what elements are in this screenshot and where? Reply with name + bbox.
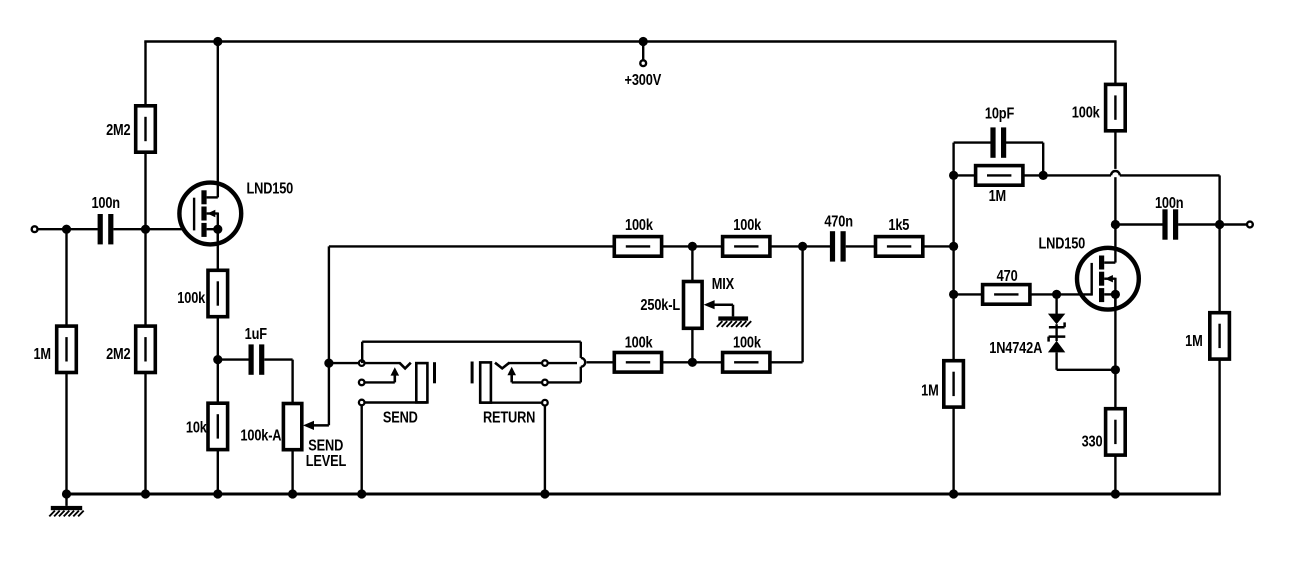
- wire zener top lead: [1055, 294, 1057, 314]
- svg-text:10pF: 10pF: [985, 105, 1014, 123]
- wire mix node to R7: [692, 245, 722, 247]
- resistor R3 2M2 lower bias: [136, 326, 156, 372]
- svg-text:100k: 100k: [625, 217, 654, 235]
- node return sleeve ground junction: [540, 489, 549, 498]
- svg-text:100k: 100k: [1072, 104, 1101, 122]
- resistor R4 100k: [208, 270, 228, 316]
- label R5 10k: [186, 419, 208, 437]
- label R7 100k: [733, 217, 762, 235]
- jack J2 RETURN contact bar: [471, 362, 474, 384]
- wire R11 bottom lead: [952, 407, 954, 494]
- svg-text:+300V: +300V: [625, 72, 662, 90]
- capacitor C3 470n: [830, 231, 846, 261]
- svg-text:10k: 10k: [186, 419, 208, 437]
- transistor Q2 LND150 gain stage: [1077, 248, 1139, 310]
- svg-text:1N4742A: 1N4742A: [989, 340, 1043, 358]
- wire send ring lead: [362, 381, 395, 383]
- svg-text:LND150: LND150: [1038, 235, 1085, 253]
- wire VR1 bottom lead: [291, 450, 293, 494]
- wire C1 to Q1 gate: [113, 228, 194, 230]
- label R14 470: [997, 268, 1018, 286]
- wire gate node to R14: [954, 293, 983, 295]
- node R15 ground junction: [1111, 489, 1120, 498]
- label R4 100k: [177, 290, 206, 308]
- wire R2 to gate node: [144, 152, 146, 229]
- wire VR2 top lead: [691, 246, 693, 281]
- label R2 2M2: [106, 122, 131, 140]
- wire R16 to ground bus: [1218, 359, 1220, 494]
- node +300V tap junction: [639, 37, 648, 46]
- transistor Q1 LND150 source follower: [179, 183, 241, 245]
- wire return sleeve lead: [480, 402, 545, 404]
- wire zener bottom lead: [1057, 352, 1116, 369]
- label R6 100k: [625, 217, 654, 235]
- node gate bias junction: [141, 225, 150, 234]
- resistor R10 100k: [723, 353, 770, 373]
- resistor R7 100k sum: [723, 237, 770, 257]
- label C2 1uF: [245, 326, 268, 344]
- node Q2 drain junction: [1111, 220, 1120, 229]
- wire R5 bottom lead: [217, 450, 219, 494]
- resistor R12 1M feedback: [976, 166, 1023, 186]
- terminal send ring: [359, 380, 365, 386]
- wire Q2 source lead: [1114, 294, 1116, 369]
- wire C5 to output node: [1178, 223, 1220, 225]
- svg-text:330: 330: [1082, 433, 1103, 451]
- label R1 1M: [33, 346, 51, 364]
- wire C3 to R8: [846, 245, 876, 247]
- resistor R2 2M2 upper bias: [136, 106, 156, 152]
- wire +300V supply rail: [144, 40, 1116, 42]
- label C1 100n: [91, 195, 120, 213]
- svg-text:470: 470: [997, 268, 1018, 286]
- svg-text:2M2: 2M2: [106, 346, 131, 364]
- label R9 100k: [625, 334, 654, 352]
- label +300V: [625, 72, 662, 90]
- wiper VR1 arrow: [303, 421, 329, 430]
- svg-text:470n: 470n: [824, 213, 853, 231]
- resistor R15 330 source: [1106, 409, 1126, 455]
- capacitor C5 100n output: [1162, 209, 1178, 239]
- svg-text:100k: 100k: [177, 290, 206, 308]
- potentiometer VR1 100k-A send level: [283, 404, 301, 450]
- capacitor C2 1uF: [249, 344, 265, 374]
- wire C2 to VR1 top: [264, 360, 292, 404]
- terminal +300V: [640, 42, 646, 67]
- wire R12 to corner: [1023, 174, 1043, 176]
- svg-text:1M: 1M: [921, 382, 939, 400]
- diode D2 zener cathode-up: [1048, 324, 1065, 352]
- wire rail to R13: [1114, 42, 1116, 85]
- svg-text:LND150: LND150: [246, 180, 293, 198]
- wire R15 bottom lead: [1114, 454, 1116, 494]
- resistor R9 100k wet mix: [614, 353, 661, 373]
- wire send sleeve lead: [362, 401, 428, 403]
- ground chassis symbol: [49, 494, 83, 516]
- wire gate node to R3: [144, 229, 146, 326]
- jack J1 SEND contact bar: [433, 362, 436, 383]
- node VR1 ground junction: [288, 489, 297, 498]
- svg-text:100k: 100k: [733, 334, 762, 352]
- resistor R13 100k drain load: [1106, 84, 1126, 130]
- label R15 330: [1082, 433, 1103, 451]
- wire return sleeve to ground bus: [544, 403, 546, 495]
- svg-text:100n: 100n: [91, 195, 120, 213]
- node output junction: [1215, 220, 1224, 229]
- svg-text:LEVEL: LEVEL: [306, 453, 347, 471]
- label VR2 250k-L: [640, 297, 680, 315]
- wire fb node to R12: [954, 174, 976, 176]
- wire output node to terminal: [1220, 223, 1247, 225]
- capacitor C4 10pF: [990, 127, 1006, 157]
- label D1 D2 1N4742A: [989, 340, 1043, 358]
- resistor R14 470 gate stopper: [983, 285, 1030, 305]
- terminal return tip: [542, 360, 548, 366]
- label R12 1M: [989, 188, 1007, 206]
- resistor R6 100k dry mix: [614, 237, 661, 257]
- label R3 2M2: [106, 346, 131, 364]
- jack J2 RETURN tip spring contact: [495, 363, 509, 369]
- wire tap to C2: [218, 358, 249, 360]
- node supply junction at Q1 drain riser: [213, 37, 222, 46]
- terminal send sleeve: [359, 400, 365, 406]
- wire VR2 bottom lead: [691, 328, 693, 362]
- wire 10pF loop: [954, 143, 1044, 176]
- wire return tip lead: [508, 362, 577, 364]
- node fb top junction: [949, 171, 958, 180]
- potentiometer VR2 250k-L mix: [684, 282, 703, 329]
- wire Q1 source to R4: [217, 229, 219, 270]
- wire source to R15: [1114, 370, 1116, 410]
- node R11 ground junction: [949, 489, 958, 498]
- label Q2 LND150: [1038, 235, 1085, 253]
- terminal return sleeve: [542, 400, 548, 406]
- svg-text:SEND: SEND: [383, 409, 418, 427]
- wire send sleeve to ground bus: [361, 403, 363, 495]
- node 1uF tap junction: [213, 355, 222, 364]
- wire send tip lead: [329, 362, 400, 364]
- diode D1 zener cathode-down: [1048, 314, 1065, 328]
- node input ground junction: [62, 489, 71, 498]
- wire R3 bottom lead: [144, 373, 146, 495]
- wiper VR2 arrow: [704, 300, 733, 316]
- svg-text:100k: 100k: [625, 334, 654, 352]
- wire R1 top lead: [65, 229, 67, 326]
- wire drain node to Q2: [1114, 225, 1116, 263]
- node gate row junction: [949, 290, 958, 299]
- label SEND LEVEL: [306, 437, 347, 470]
- wire R10 up to top row: [770, 246, 803, 362]
- label SEND: [383, 409, 418, 427]
- label RETURN: [483, 409, 535, 427]
- node zener tap junction: [1052, 290, 1061, 299]
- label C3 470n: [824, 213, 853, 231]
- wire Q2 gate column: [952, 175, 954, 360]
- jack J2 RETURN switch arrow: [507, 367, 516, 383]
- resistor R1 1M input shunt: [57, 326, 77, 372]
- wire mix bottom node to R10: [692, 361, 722, 363]
- node bias ground junction: [141, 489, 150, 498]
- label Q1 LND150: [246, 180, 293, 198]
- node source junction: [1111, 365, 1120, 374]
- wire normalling link: [362, 342, 585, 383]
- node wiper / send tip junction: [324, 359, 333, 368]
- label R11 1M: [921, 382, 939, 400]
- svg-text:250k-L: 250k-L: [640, 297, 680, 315]
- jack J1 SEND tip spring contact: [399, 363, 410, 369]
- wire R4 to R5: [217, 317, 219, 404]
- wire R8 to Q2 gate column: [923, 245, 954, 247]
- svg-text:100k-A: 100k-A: [240, 427, 282, 445]
- label R10 100k: [733, 334, 762, 352]
- svg-text:1k5: 1k5: [888, 217, 909, 235]
- wire return tip to R9 after hop: [587, 361, 615, 363]
- resistor R8 1k5: [876, 237, 923, 257]
- wire input to C1: [38, 228, 98, 230]
- svg-text:MIX: MIX: [712, 276, 735, 294]
- wire R7 to C3: [770, 245, 830, 247]
- label R13 100k: [1072, 104, 1101, 122]
- resistor R5 10k: [208, 403, 228, 449]
- node mix top junction: [688, 242, 697, 251]
- node send sleeve ground junction: [357, 489, 366, 498]
- wire ground bus: [67, 493, 1221, 496]
- wire R9 to mix bottom node: [662, 361, 693, 363]
- wire bias column top lead: [144, 42, 146, 106]
- wire R6 to mix node: [662, 245, 693, 247]
- jack J1 SEND switch arrow: [391, 367, 400, 382]
- jack J2 RETURN plug body: [480, 362, 491, 402]
- label MIX: [712, 276, 735, 294]
- label C5 100n: [1155, 195, 1184, 213]
- wire R13 to drain node: [1114, 131, 1116, 225]
- wire fb to output with hop: [1043, 171, 1219, 225]
- svg-text:1M: 1M: [1185, 333, 1203, 351]
- terminal output: [1247, 222, 1253, 228]
- node mix output junction: [949, 242, 958, 251]
- terminal return ring: [542, 380, 548, 386]
- jack J1 SEND plug body: [416, 363, 427, 402]
- label R16 1M: [1185, 333, 1203, 351]
- svg-text:100n: 100n: [1155, 195, 1184, 213]
- ground mix pot wiper: [717, 316, 751, 327]
- label R8 1k5: [888, 217, 909, 235]
- svg-text:1uF: 1uF: [245, 326, 268, 344]
- resistor R16 1M output shunt: [1210, 313, 1230, 359]
- svg-text:100k: 100k: [733, 217, 762, 235]
- wire R1 bottom lead: [65, 373, 67, 495]
- wire drain node to C5: [1115, 223, 1162, 225]
- label VR1 100k-A: [240, 427, 282, 445]
- wire VR1 wiper riser: [328, 246, 330, 425]
- svg-text:1M: 1M: [33, 346, 51, 364]
- terminal send tip: [359, 360, 365, 366]
- svg-text:2M2: 2M2: [106, 122, 131, 140]
- wire wiper riser to mix row: [329, 245, 614, 247]
- wire R14 to gate: [1030, 293, 1092, 295]
- node feedback column top junction: [798, 242, 807, 251]
- svg-text:RETURN: RETURN: [483, 409, 535, 427]
- node input / R1 junction: [62, 225, 71, 234]
- terminal input: [32, 226, 38, 232]
- wire R16 top lead: [1218, 225, 1220, 314]
- wire Q1 drain riser: [217, 42, 219, 198]
- node R5 ground junction: [213, 489, 222, 498]
- resistor R11 1M gate leak: [944, 361, 964, 407]
- node fb right junction: [1039, 171, 1048, 180]
- svg-text:1M: 1M: [989, 188, 1007, 206]
- capacitor C1 100n input: [98, 214, 114, 244]
- label C4 10pF: [985, 105, 1014, 123]
- node mix bottom junction: [688, 358, 697, 367]
